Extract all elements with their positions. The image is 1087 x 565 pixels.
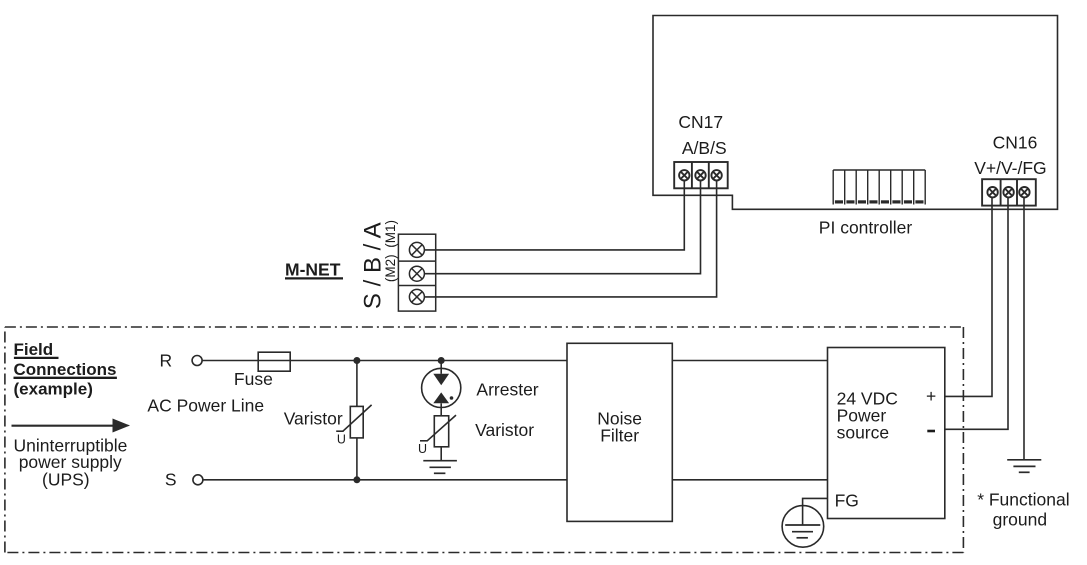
svg-text:Varistor: Varistor [284,409,343,429]
svg-text:Arrester: Arrester [476,380,538,400]
svg-text:Connections: Connections [14,360,117,379]
svg-text:(M2): (M2) [383,254,398,282]
svg-text:Varistor: Varistor [475,420,534,440]
svg-text:M-NET: M-NET [285,260,341,280]
svg-text:FG: FG [835,491,859,511]
svg-text:(UPS): (UPS) [42,470,90,490]
svg-text:U: U [418,442,427,456]
svg-text:source: source [837,423,890,443]
svg-text:S: S [165,470,177,490]
svg-text:U: U [337,433,346,447]
svg-text:* Functional: * Functional [977,490,1069,510]
svg-text:R: R [160,351,173,371]
svg-text:(example): (example) [14,380,93,399]
svg-text:PI controller: PI controller [819,218,913,238]
svg-text:A/B/S: A/B/S [682,138,727,158]
svg-text:+: + [926,386,936,406]
svg-text:Fuse: Fuse [234,369,273,389]
svg-text:CN16: CN16 [993,133,1038,153]
svg-text:Field: Field [14,340,54,359]
svg-text:CN17: CN17 [678,112,723,132]
svg-text:(M1): (M1) [383,220,398,248]
svg-text:V+/V-/FG: V+/V-/FG [974,158,1046,178]
svg-text:ground: ground [993,510,1048,530]
svg-text:AC Power Line: AC Power Line [147,396,264,416]
svg-text:Filter: Filter [600,425,639,445]
